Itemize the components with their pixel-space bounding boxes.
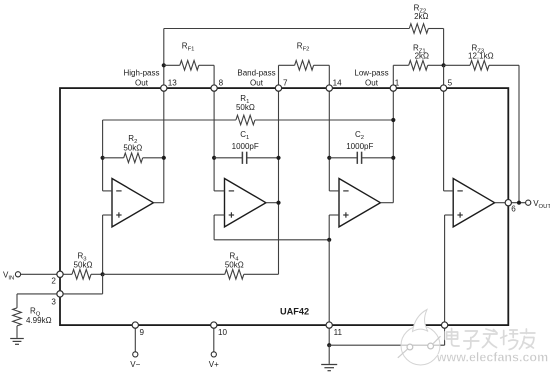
wire RZ3 right lead	[489, 64, 519, 66]
svg-text:1: 1	[395, 78, 400, 87]
wire ground node down	[328, 345, 330, 364]
svg-text:Out: Out	[365, 79, 379, 88]
pin 6	[505, 200, 511, 206]
wire A2 plus vertical	[213, 215, 215, 240]
pin 14	[326, 85, 332, 91]
wire pin 11 stub to ground node	[328, 325, 330, 345]
wire RQ top lead	[16, 294, 18, 308]
capacitor C2	[346, 130, 373, 164]
svg-text:50kΩ: 50kΩ	[74, 260, 93, 269]
svg-text:50kΩ: 50kΩ	[225, 260, 244, 269]
svg-text:8: 8	[219, 78, 224, 87]
wire ground row to A4 plus	[329, 344, 444, 346]
ground symbol below RQ	[10, 339, 24, 345]
resistor R1	[236, 94, 255, 125]
resistor RF1	[180, 41, 199, 70]
svg-text:UAF42: UAF42	[280, 306, 309, 316]
pin 9	[132, 322, 138, 328]
pin 7	[275, 85, 281, 91]
wire top row (HP out to RZ2)	[164, 28, 409, 30]
wire A2 minus stub	[214, 190, 224, 192]
wire C2 left lead	[329, 157, 357, 159]
svg-text:12.1kΩ: 12.1kΩ	[468, 52, 494, 61]
resistor RZ3	[468, 44, 494, 71]
wire A4 output stub	[495, 202, 509, 204]
terminal VIN	[15, 272, 20, 277]
terminal V- below pin 9	[133, 352, 138, 357]
pin 12 (A4 noninverting input)	[441, 322, 447, 328]
svg-text:4.99kΩ: 4.99kΩ	[26, 316, 52, 325]
svg-text:13: 13	[168, 78, 178, 87]
wire A3 output stub	[380, 202, 393, 204]
svg-text:6: 6	[511, 205, 516, 214]
junction dot RF1 left on HP vertical	[162, 63, 166, 67]
wire C1 left lead	[214, 157, 242, 159]
wire pin 1 vertical to A3 output	[392, 88, 394, 203]
svg-text:11: 11	[334, 328, 343, 337]
svg-text:High-pass: High-pass	[123, 69, 159, 78]
svg-text:Out: Out	[135, 79, 149, 88]
wire pin 5 vertical to A4 minus	[443, 88, 445, 191]
op-amp U1	[112, 179, 153, 227]
wire A2 plus stub	[214, 214, 224, 216]
pin 1	[390, 85, 396, 91]
terminal VOUT	[526, 200, 531, 205]
svg-text:50kΩ: 50kΩ	[123, 143, 142, 152]
wire R1 right lead	[255, 119, 393, 121]
pin 13	[161, 85, 167, 91]
svg-text:14: 14	[333, 78, 343, 87]
wire RZ2 right to corner	[428, 28, 443, 30]
svg-text:2: 2	[51, 276, 56, 285]
junction dot node A	[101, 272, 105, 276]
watermark elecfans logo and text	[398, 310, 548, 366]
wire R1 row left corner vertical (A1 minus chain)	[102, 120, 104, 191]
pin 2	[57, 271, 63, 277]
junction dot C2 left	[327, 156, 331, 160]
wire C1 right lead	[247, 157, 279, 159]
UAF42 chip box outline	[60, 88, 508, 325]
junction dot VOUT node	[517, 201, 521, 205]
wire A1 minus stub	[103, 190, 112, 192]
junction dot C2 right	[391, 156, 395, 160]
terminal V+ below pin 10	[211, 352, 216, 357]
svg-text:3: 3	[51, 297, 56, 306]
capacitor C1	[232, 130, 259, 164]
wire RZ3 left lead	[444, 64, 470, 66]
resistor RZ1	[409, 44, 429, 71]
svg-text:1000pF: 1000pF	[232, 142, 259, 151]
wire RQ bottom lead	[16, 326, 18, 338]
wire A4 plus vertical to bottom pin	[444, 215, 446, 325]
wire A4 plus below bus	[444, 325, 446, 345]
junction dot A2 output (band-pass node)	[276, 201, 280, 205]
svg-text:V+: V+	[209, 360, 219, 369]
wire RZ3 down to VOUT node	[518, 65, 520, 202]
wire A1 plus vertical to node A	[102, 215, 104, 274]
wire node A to R4	[103, 273, 225, 275]
wire RF2 down to pin 14	[328, 65, 330, 88]
junction dot R1 to LP node	[391, 118, 395, 122]
wire pin 1 up to RZ1	[392, 65, 394, 88]
wire pin 13 vertical to A1 output	[163, 88, 165, 203]
wire A2/A3 plus row	[214, 239, 329, 241]
resistor R4	[225, 251, 244, 279]
wire R2 right lead	[143, 157, 164, 159]
wire A1 plus stub	[103, 214, 112, 216]
svg-text:5: 5	[448, 78, 453, 87]
svg-text:2kΩ: 2kΩ	[415, 52, 429, 61]
op-amp U4	[453, 179, 494, 227]
svg-text:Out: Out	[250, 79, 264, 88]
wire A1 output stub	[153, 202, 163, 204]
wire A4 minus stub	[444, 190, 454, 192]
junction dot plus-row to ground vertical	[327, 238, 331, 242]
wire pin 7 vertical to R4	[278, 88, 280, 274]
svg-text:2kΩ: 2kΩ	[414, 12, 428, 21]
wire RZ node down to pin 5	[443, 65, 445, 88]
svg-text:Band-pass: Band-pass	[237, 69, 275, 78]
pin 10	[211, 322, 217, 328]
pin 11	[326, 322, 332, 328]
svg-text:7: 7	[283, 78, 288, 87]
svg-text:Low-pass: Low-pass	[354, 69, 388, 78]
svg-text:9: 9	[140, 328, 145, 337]
wire VIN to pin 2	[21, 273, 60, 275]
junction dot ground node	[327, 343, 331, 347]
wire A2 output stub	[266, 202, 279, 204]
wire R3 to node A	[91, 273, 103, 275]
ground symbol below pin 11	[321, 365, 337, 371]
resistor RQ	[13, 307, 52, 326]
wire RF2 left lead	[279, 64, 295, 66]
wire RZ1 right lead	[428, 64, 444, 66]
svg-text:www.elecfans.com: www.elecfans.com	[436, 351, 548, 365]
pin 5	[440, 85, 446, 91]
svg-text:50kΩ: 50kΩ	[236, 103, 255, 112]
wire pin 10 stub	[213, 325, 215, 352]
wire R4 right lead to BP vertical	[244, 273, 279, 275]
resistor RZ2	[409, 4, 428, 34]
wire RF1 left lead	[164, 64, 180, 66]
op-amp U3	[339, 179, 380, 227]
svg-text:1000pF: 1000pF	[346, 142, 373, 151]
wire R2 left lead	[103, 157, 124, 159]
wire C2 right lead	[362, 157, 394, 159]
wire pin 3 row	[17, 293, 103, 295]
resistor R3	[72, 251, 92, 279]
wire RF1 down to pin 8	[213, 65, 215, 88]
junction dot R2 left	[101, 156, 105, 160]
wire R1 left lead	[103, 119, 236, 121]
wire pin 14 vertical to A3 minus	[328, 88, 330, 191]
pin 8	[211, 85, 217, 91]
wire ground vertical to pin 11	[328, 240, 330, 325]
wire A3 minus stub	[329, 190, 339, 192]
wire RF2 right lead	[314, 64, 330, 66]
wire A3 plus vertical	[328, 215, 330, 240]
wire RF1 right lead	[199, 64, 214, 66]
resistor R2	[123, 134, 142, 162]
junction dot C1 left	[212, 156, 216, 160]
wire A3 plus stub	[329, 214, 339, 216]
junction dot RZ1/RZ2/RZ3 node	[442, 63, 446, 67]
wire RZ2 corner down to RZ junction	[443, 29, 445, 66]
junction dot C1 right	[276, 156, 280, 160]
svg-text:10: 10	[218, 328, 228, 337]
wire pin 6 to VOUT	[508, 202, 525, 204]
wire node A down to pin 3 row	[102, 274, 104, 294]
junction dot R2 right	[162, 156, 166, 160]
svg-text:V−: V−	[130, 360, 140, 369]
wire pin 8 vertical to A2 minus	[213, 88, 215, 191]
wire pin 7 up to RF2	[278, 65, 280, 88]
wire pin 9 stub	[134, 325, 136, 352]
wire RZ1 left lead	[393, 64, 408, 66]
wire pin 2 to R3	[60, 273, 72, 275]
pin 3	[57, 291, 63, 297]
wire A4 plus stub	[445, 214, 454, 216]
wire HP node: pin 13 vertical above bus	[163, 29, 165, 89]
resistor RF2	[295, 41, 314, 70]
op-amp U2	[225, 179, 266, 227]
